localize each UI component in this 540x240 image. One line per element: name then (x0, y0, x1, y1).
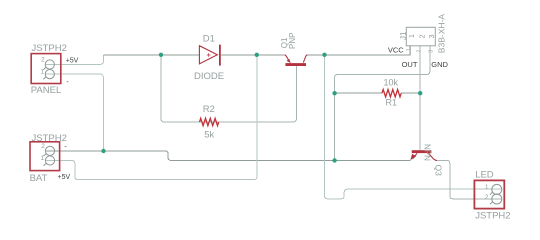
svg-text:JSTPH2: JSTPH2 (32, 43, 67, 54)
svg-text:J1: J1 (399, 31, 408, 40)
svg-text:10k: 10k (384, 78, 399, 88)
svg-text:1: 1 (406, 48, 412, 51)
transistor Q1 PNP (284, 55, 307, 66)
wire R1 left lead (335, 92, 382, 94)
svg-text:DIODE: DIODE (194, 71, 224, 82)
connector J2 PANEL box (31, 54, 61, 84)
svg-text:+5V: +5V (66, 58, 79, 65)
resistor R1 10k (382, 90, 401, 97)
svg-text:1: 1 (40, 68, 44, 75)
pin stub 1 of J1 (409, 46, 411, 55)
svg-text:1: 1 (41, 155, 45, 162)
wire BAT - pin to GND junction row (46, 151, 411, 161)
svg-text:R2: R2 (203, 104, 215, 115)
wire J1 pin 3 GND down, left, down through R1 left junction to GND row (335, 46, 430, 161)
junction node A: rail / R2 branch (159, 53, 163, 57)
wire PANEL +5V pin to VCC rail (46, 55, 104, 65)
svg-text:3: 3 (428, 50, 434, 53)
wire PANEL - pin down to GND junction (46, 74, 104, 151)
wire BAT +5V pin down to +5V bottom rail then up to junction B (46, 55, 257, 180)
svg-text:2: 2 (417, 50, 423, 53)
connector J3 BAT box (30, 142, 60, 171)
wire Q3 collector to LED pin 2 (435, 160, 502, 198)
svg-text:R1: R1 (386, 97, 398, 107)
svg-text:PANEL: PANEL (31, 85, 61, 96)
svg-text:Q3: Q3 (433, 165, 443, 177)
svg-text:BAT: BAT (30, 173, 48, 184)
svg-text:NPN: NPN (423, 144, 432, 161)
svg-text:1: 1 (409, 34, 416, 38)
wire J1 pin 2 OUT down to R1 right junction and Q3 base (419, 46, 421, 151)
wire R2 branch: junction A down, through R2 row, up to Q1 base (161, 55, 297, 122)
svg-text:GND: GND (431, 60, 448, 69)
wire VCC rail from PANEL bend to diode anode (104, 54, 200, 56)
svg-text:2: 2 (41, 143, 45, 150)
svg-text:B3B-XH-A: B3B-XH-A (437, 14, 447, 54)
junction node C: rail / LED feed (322, 53, 326, 57)
svg-text:LED: LED (475, 169, 494, 180)
diode D1 (199, 45, 220, 66)
junction node: R1 left / GND path (332, 91, 336, 95)
wire VCC feed junction C down and across to LED pin 1 (325, 55, 502, 199)
svg-text:D1: D1 (203, 34, 215, 45)
connector J1 B3B-XH-A box (406, 27, 435, 46)
transistor Q3 NPN (410, 150, 437, 160)
wire junction C to J1 pin 1 VCC (308, 46, 411, 55)
svg-text:2: 2 (485, 194, 489, 201)
svg-text:JSTPH2: JSTPH2 (475, 211, 510, 222)
svg-text:5k: 5k (204, 130, 214, 141)
svg-text:VCC: VCC (388, 45, 404, 54)
svg-text:PNP: PNP (288, 33, 297, 49)
resistor R2 5k (200, 118, 219, 125)
junction node: PANEL- meets BAT- (101, 149, 105, 153)
svg-text:3: 3 (429, 34, 436, 38)
svg-text:2: 2 (41, 56, 45, 63)
wire R1 right lead (401, 92, 420, 94)
svg-text:JSTPH2: JSTPH2 (32, 133, 67, 144)
svg-text:+5V: +5V (58, 174, 71, 181)
connector J4 LED box (474, 180, 504, 208)
wire diode cathode to junction B (221, 54, 284, 56)
svg-text:2: 2 (419, 34, 426, 38)
junction node: R1 right / OUT (418, 91, 422, 95)
junction node B: rail / BAT+5V (255, 53, 259, 57)
junction node: GND row / Q3 emitter (332, 158, 336, 162)
svg-text:OUT: OUT (402, 60, 418, 69)
svg-text:1: 1 (485, 184, 489, 191)
